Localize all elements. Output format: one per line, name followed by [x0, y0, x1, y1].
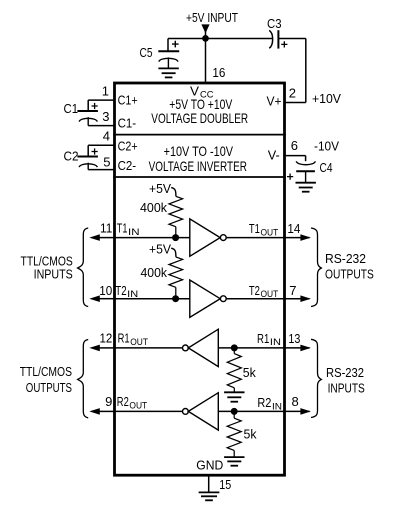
resistor lead T2 [175, 287, 177, 298]
svg-text:C2+: C2+ [118, 139, 138, 154]
svg-text:1: 1 [102, 84, 109, 99]
svg-text:12: 12 [100, 330, 113, 345]
wire T2 output [226, 298, 285, 300]
wire pin1 [88, 99, 114, 101]
svg-text:16: 16 [212, 65, 225, 80]
svg-text:400k: 400k [140, 200, 167, 215]
svg-text:7: 7 [289, 283, 296, 298]
svg-text:OUT: OUT [130, 337, 148, 348]
divider doubler/inverter [113, 134, 286, 136]
resistor lead R1 [233, 348, 235, 354]
wire C3 to V+ riser [278, 38, 305, 40]
node T2 input junction [172, 295, 179, 302]
R1 inverter bubble [183, 345, 189, 351]
wire T2 input [115, 298, 190, 300]
svg-text:8: 8 [292, 394, 299, 409]
svg-text:VOLTAGE INVERTER: VOLTAGE INVERTER [149, 159, 247, 174]
wire C4 stub [305, 156, 307, 162]
brace RS-232 inputs [311, 339, 321, 417]
wire R1 output [115, 347, 183, 349]
ground R2 5k [224, 456, 244, 458]
brace TTL/CMOS inputs [78, 228, 89, 307]
node R2 input junction [231, 408, 238, 415]
svg-text:IN: IN [270, 337, 281, 348]
svg-text:6: 6 [291, 138, 298, 153]
arrow pin11 [89, 234, 100, 241]
resistor 5k R2 [227, 418, 241, 450]
node R1 input junction [231, 344, 238, 351]
svg-text:C4: C4 [320, 160, 333, 175]
svg-text:+10V TO -10V: +10V TO -10V [164, 144, 233, 159]
wire pin5 [88, 169, 114, 171]
IC body box [115, 83, 285, 475]
wire T1 output [226, 237, 285, 239]
svg-text:C2-: C2- [118, 158, 137, 173]
wire pin6 V- [285, 155, 306, 157]
svg-text:+5V TO +10V: +5V TO +10V [169, 97, 232, 112]
ground pin15 [199, 491, 220, 493]
arrow pin8 [285, 410, 310, 412]
R2 inverter bubble [183, 409, 189, 415]
wire pin4 [88, 144, 114, 146]
wire pin16 [205, 39, 207, 84]
op-amp T2 driver [190, 280, 220, 317]
svg-text:+5V: +5V [149, 242, 171, 257]
svg-text:T1: T1 [249, 221, 260, 236]
pullup lead T2 [171, 248, 176, 257]
brace TTL/CMOS outputs [78, 340, 89, 418]
svg-text:C2: C2 [64, 149, 79, 164]
svg-text:R2: R2 [257, 395, 271, 410]
svg-text:INPUTS: INPUTS [34, 266, 73, 281]
T1 inverter bubble [220, 235, 226, 241]
wire pin3 [88, 125, 114, 127]
resistor 400k T1 [169, 196, 183, 226]
svg-text:-10V: -10V [314, 139, 339, 154]
svg-text:T2: T2 [249, 283, 260, 298]
node T1 input junction [172, 234, 179, 241]
op-amp R1 receiver [188, 329, 218, 366]
svg-text:OUTPUTS: OUTPUTS [325, 266, 374, 281]
svg-text:+10V: +10V [312, 91, 341, 106]
svg-text:15: 15 [219, 477, 231, 492]
svg-text:RS-232: RS-232 [325, 251, 366, 266]
wire R2 output [115, 410, 183, 412]
svg-text:10: 10 [99, 283, 112, 298]
svg-text:RS-232: RS-232 [326, 365, 364, 380]
op-amp R2 receiver [188, 393, 218, 430]
resistor lead R2 [233, 411, 235, 418]
svg-text:OUT: OUT [129, 400, 147, 411]
svg-text:5k: 5k [243, 365, 256, 380]
svg-text:11: 11 [100, 221, 112, 236]
arrow pin14 [285, 237, 310, 239]
arrow pin13 [285, 347, 310, 349]
wire R1 input [218, 347, 285, 349]
ground R1 [224, 391, 244, 393]
arrow pin12 [89, 345, 100, 352]
svg-text:IN: IN [272, 401, 282, 412]
divider inverter bottom [113, 176, 286, 178]
pullup lead T1 [171, 188, 176, 197]
svg-text:2: 2 [289, 86, 296, 101]
svg-text:R1: R1 [257, 331, 269, 346]
svg-text:IN: IN [128, 227, 140, 238]
wire V+ riser [305, 39, 307, 103]
resistor 5k R1 [227, 354, 241, 388]
svg-text:V+: V+ [267, 94, 282, 109]
brace RS-232 outputs [311, 228, 321, 307]
arrow pin9 [89, 408, 100, 415]
svg-text:R2: R2 [117, 394, 129, 409]
node +5V junction [202, 35, 209, 42]
svg-text:+5V INPUT: +5V INPUT [186, 10, 238, 25]
svg-text:13: 13 [288, 331, 300, 346]
svg-text:C1-: C1- [118, 115, 137, 130]
svg-text:5k: 5k [244, 427, 257, 442]
svg-text:9: 9 [105, 394, 112, 409]
svg-text:3: 3 [102, 109, 109, 124]
svg-text:OUT: OUT [261, 289, 279, 300]
svg-text:400k: 400k [141, 265, 168, 280]
svg-text:IN: IN [127, 289, 138, 300]
ground C5 [158, 67, 178, 69]
wire pin2 V+ [285, 102, 306, 104]
svg-text:C3: C3 [267, 16, 282, 31]
svg-text:C5: C5 [140, 45, 153, 60]
resistor lead R2 bottom [233, 450, 235, 457]
wire +5V rail [168, 38, 272, 40]
svg-text:5: 5 [103, 155, 110, 170]
svg-text:OUTPUTS: OUTPUTS [26, 380, 72, 395]
svg-text:T1: T1 [117, 221, 128, 236]
resistor lead R1 bottom [233, 388, 235, 392]
arrow pin7 [285, 298, 310, 300]
arrow pin10 [89, 295, 100, 302]
wire pin15 [208, 475, 210, 492]
svg-text:R1: R1 [118, 330, 130, 345]
svg-text:4: 4 [103, 129, 110, 144]
svg-text:TTL/CMOS: TTL/CMOS [20, 364, 73, 379]
svg-text:V-: V- [268, 147, 280, 162]
svg-text:+5V: +5V [149, 181, 171, 196]
svg-text:VOLTAGE DOUBLER: VOLTAGE DOUBLER [151, 111, 248, 126]
wire C5 stub [167, 39, 169, 52]
svg-text:GND: GND [196, 457, 223, 472]
svg-text:C1: C1 [64, 101, 79, 116]
svg-text:14: 14 [287, 221, 300, 236]
svg-text:INPUTS: INPUTS [328, 380, 365, 395]
svg-text:T2: T2 [115, 283, 126, 298]
op-amp T1 driver [190, 219, 220, 256]
svg-text:OUT: OUT [261, 228, 279, 239]
wire R2 input [218, 410, 285, 412]
svg-text:C1+: C1+ [118, 93, 138, 108]
resistor 400k T2 [169, 257, 183, 287]
+5V input arrow [205, 26, 207, 39]
wire T1 input [115, 237, 190, 239]
T2 inverter bubble [220, 296, 226, 302]
resistor lead T1 [175, 227, 177, 238]
ground C4 [296, 182, 316, 184]
